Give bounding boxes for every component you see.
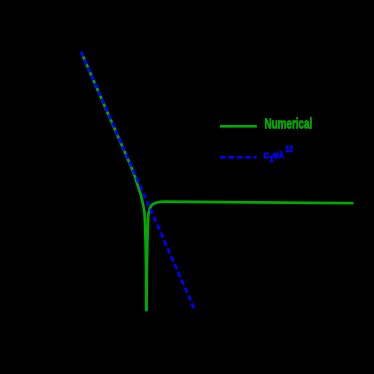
legend: blue dashed sample line bbox=[220, 156, 257, 159]
svg-text:e: e bbox=[273, 150, 279, 162]
legend: green sample line bbox=[220, 125, 257, 128]
svg-text:λ: λ bbox=[279, 150, 284, 160]
legend: label c1 e^(lambda1 t) bbox=[263, 144, 293, 164]
svg-text:Numerical: Numerical bbox=[265, 116, 313, 132]
green numerical curve bbox=[82, 53, 353, 310]
svg-text:1t: 1t bbox=[285, 144, 293, 154]
blue dashed asymptote line bbox=[81, 52, 194, 309]
